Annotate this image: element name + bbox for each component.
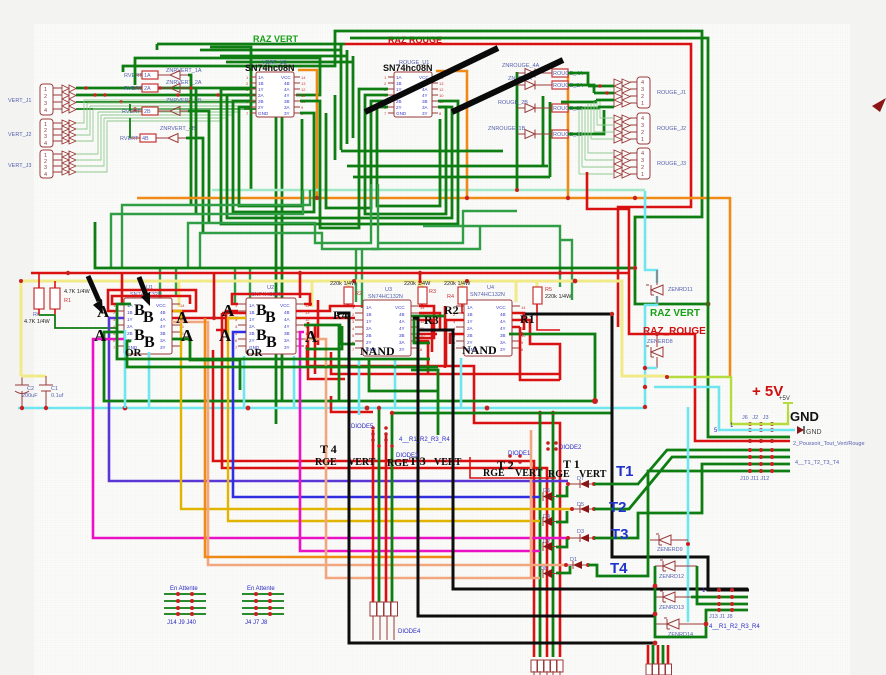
svg-text:2B: 2B [467,333,473,338]
svg-text:J4 J7 J8: J4 J7 J8 [245,620,268,626]
zener ZNRVERT_1A [164,68,202,80]
LED array ROUGE_J2 [614,115,630,143]
svg-text:T3: T3 [611,526,629,543]
annotation black diagonal stroke 2 [452,60,563,112]
svg-text:3Y: 3Y [422,111,428,116]
wire green staircase into U1/U2 [160,268,250,308]
svg-text:220k 1/4W: 220k 1/4W [545,294,572,300]
svg-text:2: 2 [641,165,644,171]
wire orange riser ROUGE_U1 [436,71,568,198]
svg-text:4B: 4B [399,312,405,317]
svg-text:B: B [143,309,154,326]
svg-text:4: 4 [641,80,644,86]
wire gold net U1 out [173,311,572,509]
svg-text:4B: 4B [284,81,290,86]
diode D1 [564,557,590,569]
svg-text:T 4: T 4 [320,442,337,456]
svg-text:A: A [94,326,107,345]
svg-text:3B: 3B [284,331,290,336]
svg-text:U3: U3 [385,287,392,293]
wire salmon net U1 out [172,322,566,565]
svg-text:NAND: NAND [360,344,395,358]
svg-text:DIODE1: DIODE1 [508,451,531,457]
zener ZNRVERT_2A [166,80,202,93]
wire gold net U2 [228,318,540,521]
svg-text:1B: 1B [249,310,255,315]
zener ZNROUGE_2B [498,100,552,113]
wire black net R1 [525,314,749,590]
svg-text:VCC: VCC [280,303,290,308]
wire green T3 [594,464,790,538]
svg-text:OR: OR [246,347,264,359]
svg-text:4Y: 4Y [500,326,506,331]
svg-text:DIODE5: DIODE5 [351,424,374,430]
resistor R2 [330,281,363,306]
wire green from R6/R1 [39,315,116,328]
resistor RVERT_2A [124,84,170,92]
svg-text:4: 4 [44,108,47,114]
wire orange riser from VERT_U2 [298,70,317,198]
connector ROUGE_J1 [630,77,686,108]
svg-text:A: A [97,302,110,321]
wire red U2-U3 link [296,306,355,318]
svg-text:4B: 4B [500,312,506,317]
svg-text:VCC: VCC [156,303,166,308]
svg-text:J6 J2 J3: J6 J2 J3 [742,415,769,421]
svg-text:VERT: VERT [434,457,462,468]
svg-text:R5: R5 [545,287,552,293]
svg-text:R2: R2 [355,291,362,297]
wire green T1 [594,450,790,484]
svg-text:ZENRD12: ZENRD12 [659,574,684,580]
svg-text:D3: D3 [577,529,584,535]
svg-text:RVERT: RVERT [124,73,143,79]
wire red mesh U2 [216,294,312,330]
wire red mesh U3/U4 [308,300,464,379]
wire blue net U2 [233,332,540,497]
svg-text:R1: R1 [520,312,535,326]
svg-text:1A: 1A [467,305,474,310]
zener ZENRD12 [655,560,748,604]
LED array VERT_J2 [62,120,76,144]
svg-text:3A: 3A [500,340,507,345]
svg-text:A: A [305,327,318,346]
svg-text:1A: 1A [144,73,151,79]
svg-text:4A: 4A [500,319,507,324]
wire magenta net U2 out [300,332,540,551]
svg-text:220k 1/4W: 220k 1/4W [330,281,357,287]
diode D3 [566,529,596,542]
wire cyan GND row [654,387,795,430]
svg-text:1Y: 1Y [249,317,255,322]
svg-text:B: B [265,309,276,326]
wire cyan right vertical [687,407,690,622]
svg-text:3B: 3B [284,99,290,104]
wire green bus from VERT_J1 [76,88,282,424]
svg-text:4A: 4A [160,317,167,322]
wire green T2 [594,457,790,509]
svg-text:ZENERD9: ZENERD9 [657,547,683,553]
svg-text:NAND: NAND [462,343,497,357]
zener ZNROUGE_1B [488,126,552,139]
zener ZENRD13 [655,591,748,611]
svg-text:1: 1 [641,137,644,143]
capacitor C1 [39,376,64,408]
svg-text:VCC: VCC [281,75,291,80]
connector VERT_J3 [8,150,62,178]
resistor R6 [24,273,50,325]
zener ZENRD14 [655,618,706,638]
svg-text:3B: 3B [160,331,166,336]
wire black net R4 [337,313,655,643]
svg-text:4B: 4B [142,136,149,142]
svg-text:DIODE2: DIODE2 [559,445,582,451]
svg-text:2A: 2A [366,326,373,331]
wire red U1-U2 link [172,273,238,318]
wire green feeds ROUGE resistors [561,73,604,134]
svg-text:ZNROUGE_1B: ZNROUGE_1B [488,126,526,132]
annotation arrowhead stroke 2 [872,98,886,112]
wire salmon net U2 out [304,339,540,578]
svg-text:4__R1_R2_R3_R4: 4__R1_R2_R3_R4 [399,437,450,443]
svg-text:A: A [176,308,189,327]
svg-text:14: 14 [521,305,526,310]
wire yellow bus [21,281,667,376]
svg-text:En Attente: En Attente [247,586,275,592]
wire light green fan ROUGE_J2/J3 [591,100,614,139]
svg-text:VERT: VERT [348,457,376,468]
jumper block En Attente J14/J9/J40 [164,586,206,626]
svg-text:U4: U4 [487,285,494,291]
IC U4 SN74HC132N [453,285,526,356]
svg-text:4Y: 4Y [399,326,405,331]
wire green zener block vertical [655,566,748,637]
svg-text:ZENRD13: ZENRD13 [659,605,684,611]
svg-text:1Y: 1Y [467,319,473,324]
svg-text:2: 2 [44,94,47,100]
IC U2 SN74HC32N [235,285,310,354]
svg-text:VCC: VCC [395,305,405,310]
wire purple net U1 [109,318,568,481]
svg-text:R4: R4 [447,294,454,300]
svg-text:1A: 1A [366,305,373,310]
svg-text:2Y: 2Y [396,105,402,110]
svg-text:R4: R4 [333,308,348,322]
svg-text:3Y: 3Y [284,111,290,116]
svg-text:1B: 1B [467,312,473,317]
svg-text:C1: C1 [51,386,58,392]
svg-text:D6: D6 [543,488,550,494]
wire green hops from D6/D4/D2/D8 [556,486,570,573]
svg-text:VERT_J2: VERT_J2 [8,132,31,138]
svg-text:RGE: RGE [387,458,409,469]
resistor RVERT_2B [122,107,170,115]
svg-text:4Y: 4Y [422,93,428,98]
LED array ROUGE_J1 [614,79,630,107]
svg-text:3B: 3B [422,99,428,104]
svg-text:T1: T1 [616,463,634,480]
svg-text:U2: U2 [267,285,274,291]
svg-text:3A: 3A [160,338,167,343]
zener ZNROUGE_4A [502,63,552,78]
wire green T4 [588,471,790,576]
wire green frame second [350,38,790,437]
junction dots J13 row [717,588,734,612]
svg-text:RAZ VERT: RAZ VERT [253,34,299,44]
IC U3 SN74HC132N [352,287,425,356]
svg-text:3: 3 [44,134,47,140]
svg-text:10: 10 [439,93,444,98]
wire RAZ ROUGE red frame [345,44,691,327]
svg-text:ZNRVERT_1A: ZNRVERT_1A [166,68,202,74]
svg-text:2A: 2A [249,324,256,329]
wire green mesh around ROUGE_U1 [300,89,388,228]
svg-text:SN74HC132N: SN74HC132N [368,294,403,300]
resistor RVERT_1A [124,71,170,79]
resistor R5 [533,287,572,330]
svg-text:4A: 4A [284,87,291,92]
connector DIODE4 [370,602,421,640]
svg-text:ROUGE_J3: ROUGE_J3 [657,161,686,167]
connector VERT_J1 [8,84,62,115]
svg-text:2A: 2A [144,86,151,92]
svg-text:B: B [144,334,155,351]
+5V symbol [779,396,793,411]
svg-text:RAZ_ROUGE: RAZ_ROUGE [643,326,706,337]
wire light green fan VERT_J2 [76,100,262,141]
svg-text:RVERT: RVERT [124,86,143,92]
svg-text:3A: 3A [284,105,291,110]
svg-text:J13 J1 J8: J13 J1 J8 [709,614,733,620]
svg-text:220k 1/4W: 220k 1/4W [404,281,431,287]
svg-text:2A: 2A [127,324,134,329]
diode D2 [543,539,558,551]
wire green net U1 GND [104,332,595,401]
jumper dots DIODE1 area [508,441,558,464]
svg-text:2B: 2B [258,99,264,104]
svg-text:SN74HC132N: SN74HC132N [470,292,505,298]
wire pale mint bus [212,189,645,191]
wire black net U3 [413,318,655,616]
resistor R1 [50,281,90,315]
svg-text:1Y: 1Y [127,317,133,322]
wire red drops from bus [122,273,420,412]
zener ZENRD11 [646,270,693,304]
svg-text:4Y: 4Y [284,324,290,329]
diode D7 [566,476,596,488]
svg-text:A: A [222,301,235,320]
zener ZNRVERT_4B [160,126,196,143]
svg-text:ZNROUGE_4A: ZNROUGE_4A [502,63,540,69]
wire magenta net U1 [93,339,568,538]
svg-text:1: 1 [641,101,644,107]
svg-text:3Y: 3Y [284,345,290,350]
svg-text:3: 3 [44,101,47,107]
svg-text:D1: D1 [570,557,577,563]
wire green long mid [392,412,612,415]
svg-text:2A: 2A [467,326,474,331]
svg-text:RGE: RGE [315,457,337,468]
svg-text:12: 12 [439,87,444,92]
svg-text:1A: 1A [396,75,403,80]
svg-text:2B: 2B [144,109,151,115]
svg-text:C2: C2 [27,386,34,392]
svg-text:VERT: VERT [579,469,607,480]
svg-text:En Attente: En Attente [170,586,198,592]
svg-text:1A: 1A [258,75,265,80]
annotation arrow 1 [88,276,103,314]
svg-text:3: 3 [44,165,47,171]
junction dots T rows [748,422,774,473]
svg-text:4: 4 [641,151,644,157]
svg-text:200uF: 200uF [22,393,38,399]
svg-text:1B: 1B [258,81,264,86]
zener ZENERD9 [650,534,688,553]
svg-text:1A: 1A [249,303,256,308]
IC U1 SN74HC32N [113,285,185,354]
wire green mesh around VERT_U2 [221,89,458,224]
wire green thick riser [210,47,251,190]
svg-text:4A: 4A [284,317,291,322]
svg-text:1: 1 [641,172,644,178]
svg-text:2Y: 2Y [258,105,264,110]
wire green zener outputs down [186,75,209,233]
IC ROUGE_U1 SN74hc08N [383,60,444,117]
svg-text:4B: 4B [160,310,166,315]
svg-text:3A: 3A [399,340,406,345]
svg-text:R3: R3 [424,313,439,327]
svg-text:1B: 1B [366,312,372,317]
annotation arrow 2 [139,277,150,306]
svg-text:4.7K 1/4W: 4.7K 1/4W [64,289,90,295]
diode D8 [540,566,558,578]
svg-text:R1: R1 [64,298,71,304]
svg-text:14: 14 [301,75,306,80]
wire light green fan VERT_J3 [76,112,107,172]
svg-text:B: B [266,334,277,351]
svg-text:T 1: T 1 [563,457,580,471]
svg-text:GND: GND [396,111,407,116]
wire yellow VCC stubs [179,281,537,307]
wire red T2 link [470,457,556,478]
svg-text:3B: 3B [399,333,405,338]
svg-text:3: 3 [641,87,644,93]
svg-text:DIODE4: DIODE4 [398,629,421,635]
svg-text:3A: 3A [284,338,291,343]
svg-text:3: 3 [641,123,644,129]
svg-text:J10 J11 J12: J10 J11 J12 [740,476,769,482]
svg-text:3Y: 3Y [500,347,506,352]
svg-text:ROUGE_J1: ROUGE_J1 [657,90,686,96]
svg-text:ZENERD8: ZENERD8 [647,339,673,345]
wire cyan GND bus [18,407,645,410]
svg-text:4B: 4B [284,310,290,315]
wire green risers bottom connector A [540,413,553,657]
svg-text:3Y: 3Y [160,345,166,350]
svg-text:A: A [219,326,232,345]
svg-text:4.7K 1/4W: 4.7K 1/4W [24,319,50,325]
svg-text:RAZ VERT: RAZ VERT [650,308,700,319]
svg-text:3: 3 [641,158,644,164]
svg-text:3B: 3B [500,333,506,338]
svg-text:ZENRD11: ZENRD11 [668,287,693,293]
wire red mesh U1 left [108,290,196,311]
capacitor C2 [15,376,46,408]
svg-text:2Y: 2Y [249,338,255,343]
svg-text:4: 4 [44,141,47,147]
LED array VERT_J3 [62,151,76,175]
wire cyan stubs to GND bus [125,330,461,415]
wire green staircase bundle to lower ICs [111,190,303,268]
wire green long horizontal above red bus [95,222,635,268]
resistor ROUGE_3A [552,81,583,89]
connector bottom B [646,645,672,675]
zener ZENERD8 [643,332,673,409]
svg-text:VCC: VCC [496,305,506,310]
svg-text:R2: R2 [444,303,459,317]
svg-text:4: 4 [44,172,47,178]
wire red bus right drop [587,172,629,274]
svg-text:T 3: T 3 [409,454,426,468]
svg-text:2: 2 [641,94,644,100]
svg-text:4Y: 4Y [284,93,290,98]
svg-text:4Y: 4Y [160,324,166,329]
svg-text:ROUGE_J2: ROUGE_J2 [657,126,686,132]
svg-text:+ 5V: + 5V [752,383,783,400]
svg-text:4: 4 [641,116,644,122]
resistor ROUGE_1B [552,130,583,138]
resistor R4 [444,281,471,313]
svg-text:4__T1_T2_T3_T4: 4__T1_T2_T3_T4 [795,460,839,466]
IC VERT_U2 SN74hc08N [245,60,306,117]
wire green verticals between chips [335,44,353,160]
wire chartreuse +5V row [667,377,788,424]
wire black net R3 [419,330,748,589]
connector bottom A [531,660,563,675]
wire red bus [31,272,628,275]
wire orange net [205,318,452,557]
svg-text:3A: 3A [422,105,429,110]
svg-text:13: 13 [301,81,306,86]
svg-text:R3: R3 [429,289,436,295]
svg-text:2B: 2B [127,331,133,336]
svg-text:A: A [181,326,194,345]
resistor ROUGE_4A [552,69,583,77]
svg-text:4A: 4A [422,87,429,92]
wire red risers bottom connector A [213,313,560,657]
svg-text:ZNRVERT_2A: ZNRVERT_2A [166,80,202,86]
zener ZNRVERT_2B [166,98,202,116]
svg-text:D5: D5 [577,502,584,508]
wire green DIODE4 risers [379,408,392,603]
svg-text:1B: 1B [127,310,133,315]
svg-text:12: 12 [301,87,306,92]
svg-text:GND: GND [806,429,822,436]
connector VERT_J2 [8,119,62,147]
LED array VERT_J1 [62,85,76,113]
svg-text:GND: GND [790,409,819,424]
diode D6 [543,488,558,501]
diode D5 [570,502,596,513]
svg-text:2: 2 [641,130,644,136]
svg-text:2B: 2B [366,333,372,338]
svg-text:0.1uf: 0.1uf [51,393,64,399]
svg-text:VERT: VERT [515,468,543,479]
svg-text:3Y: 3Y [399,347,405,352]
svg-text:RGE: RGE [483,468,505,479]
svg-text:2A: 2A [258,93,265,98]
LED array ROUGE_J3 [614,150,630,178]
